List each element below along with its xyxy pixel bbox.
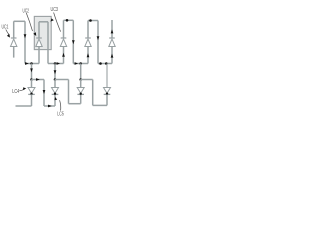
arrow down on descent B — [54, 70, 57, 74]
arrow down on U4 right leg — [97, 36, 100, 40]
cell U4 right leg — [97, 21, 99, 64]
cell A right leg — [43, 80, 45, 107]
junction dot cell A — [30, 78, 33, 81]
cell U1 left leg lower stub — [13, 47, 15, 58]
svg-text:UC2: UC2 — [23, 9, 30, 15]
cell B top wire — [55, 79, 69, 81]
diode D7 — [52, 88, 59, 95]
branch 5 stub wire — [111, 20, 113, 38]
cell U2 left leg upper — [38, 22, 40, 38]
junction dot at descent C — [79, 62, 82, 65]
label LC5 arrowhead — [55, 97, 58, 100]
bus C-D — [93, 104, 107, 106]
cell U3 left leg upper — [63, 20, 65, 38]
cell A left leg lower — [31, 94, 33, 106]
svg-text:UC3: UC3 — [51, 7, 59, 13]
bus A-B — [44, 105, 55, 107]
cell B left leg — [54, 80, 56, 88]
label LC5 arrow line — [60, 100, 61, 110]
diode D9 lower wire — [106, 94, 108, 105]
arrow down on cell A right leg — [43, 90, 46, 94]
cell C left leg — [80, 80, 82, 88]
diode D2 — [36, 38, 42, 47]
bus U4-branch5 — [98, 63, 112, 65]
cell U1 right leg — [24, 21, 26, 63]
diode D5 — [109, 38, 115, 47]
descent wire D — [106, 64, 108, 88]
arrow right on cell A top wire — [36, 78, 40, 81]
diode D4 — [85, 38, 91, 47]
descent wire B — [54, 64, 56, 80]
descent wire C — [80, 64, 82, 80]
arrow down on U1 right leg — [24, 34, 27, 38]
branch 5 lower wire — [111, 47, 113, 64]
arrow up on branch 5 — [111, 29, 114, 33]
arrow right on bus U2-U3 — [57, 62, 60, 65]
svg-text:UC1: UC1 — [2, 25, 9, 31]
junction dot cell B — [54, 78, 57, 81]
arrow right on bus U3-U4 — [75, 62, 78, 65]
highlight box around cell U2 — [34, 16, 51, 49]
descent wire A — [31, 64, 33, 80]
arrow right on bus U1-U2 — [25, 62, 29, 65]
diode D3 — [60, 38, 66, 47]
cell U1 top wire — [14, 20, 25, 22]
junction dot at descent B — [54, 62, 57, 65]
junction dot on U4 top wire — [89, 19, 92, 22]
junction dot at descent A — [30, 62, 33, 65]
label UC3 arrow line — [54, 13, 61, 32]
cell U1 left leg upper — [13, 21, 15, 38]
cell U4 top wire — [88, 20, 98, 22]
cell U3 top wire — [64, 19, 74, 21]
arrow up below diode D3 — [62, 53, 65, 57]
label LC4 arrow line — [19, 89, 23, 90]
arrow down on U3 right leg — [72, 40, 75, 44]
cell A top wire — [32, 79, 45, 81]
cell C right leg — [92, 80, 94, 106]
label LC4 arrowhead — [23, 87, 26, 90]
diode D7 lower wire — [54, 94, 56, 106]
arrow down on descent A — [30, 68, 33, 72]
svg-text:LC5: LC5 — [57, 112, 64, 118]
arrow up below diode D5 — [111, 54, 114, 58]
cell U4 left leg lower — [87, 47, 89, 64]
bus U2-U3 — [48, 63, 64, 65]
bus U1-U2 — [25, 63, 39, 65]
junction dot at descent D — [105, 62, 108, 65]
label UC3 arrowhead — [50, 18, 53, 21]
junction dot left on bus U4-branch5 — [99, 62, 102, 65]
diode D8 lower wire — [80, 94, 82, 103]
arrow right on bus A-B — [48, 105, 52, 108]
cell U3 right leg — [72, 20, 74, 63]
label UC2 arrowhead — [33, 32, 36, 36]
label UC1 arrow line — [6, 30, 10, 36]
bus B-C — [69, 103, 81, 105]
label UC2 arrow line — [26, 13, 32, 31]
cell U2 left leg lower — [38, 47, 40, 64]
cell U3 left leg lower — [63, 47, 65, 64]
diode D8 — [77, 88, 84, 95]
cell A left leg — [31, 80, 33, 88]
cell C top wire — [81, 79, 93, 81]
cell U2 right leg — [47, 22, 49, 64]
cell B right leg — [68, 80, 70, 104]
svg-text:LC4: LC4 — [12, 89, 19, 95]
cell U2 top wire — [39, 21, 48, 23]
cell U4 left leg upper — [87, 21, 89, 39]
diode D1 — [11, 38, 17, 47]
label UC1 arrowhead — [7, 34, 10, 38]
bus U3-U4 — [73, 63, 88, 65]
junction dot cell C — [79, 78, 82, 81]
diode D6 — [28, 88, 35, 95]
arrow up below diode D4 — [87, 53, 90, 57]
diode D9 — [104, 88, 111, 95]
junction dot on U3 top wire — [66, 19, 69, 22]
left terminal bus — [16, 105, 32, 107]
